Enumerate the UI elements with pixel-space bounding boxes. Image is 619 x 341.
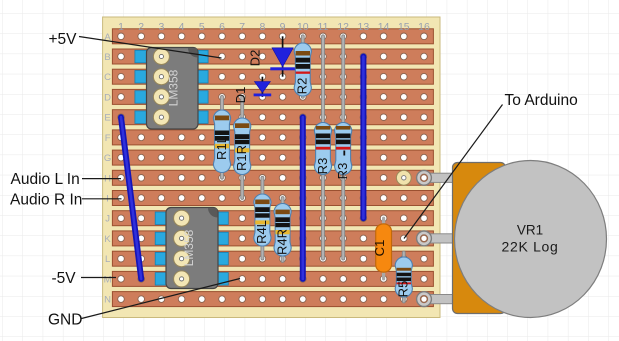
svg-text:12: 12	[337, 21, 349, 33]
stripboard board	[103, 17, 440, 318]
svg-text:R1R: R1R	[234, 145, 249, 171]
svg-text:15: 15	[398, 21, 410, 33]
svg-text:-5V: -5V	[52, 270, 77, 287]
copper strip row G	[112, 150, 433, 165]
svg-text:Audio L In: Audio L In	[11, 171, 80, 188]
diode D1	[254, 77, 272, 97]
svg-text:D1: D1	[233, 87, 248, 104]
svg-text:6: 6	[219, 21, 225, 33]
potentiometer VR1 pad pins	[417, 170, 432, 306]
board holes	[118, 33, 428, 302]
svg-text:8: 8	[259, 21, 265, 33]
svg-text:LM358: LM358	[167, 69, 181, 106]
potentiometer VR1 dial	[455, 161, 607, 318]
resistor R3L	[314, 36, 331, 258]
svg-text:G: G	[104, 153, 111, 164]
svg-text:R5: R5	[396, 281, 411, 298]
node Audio L In leader line	[82, 178, 121, 180]
op-amp U1 pads	[135, 50, 208, 123]
svg-text:VR1: VR1	[517, 223, 543, 238]
copper strip row B	[112, 49, 433, 64]
capacitor C1 leads	[382, 218, 385, 279]
diode D2	[270, 36, 295, 76]
resistor R3R	[335, 36, 352, 258]
svg-text:14: 14	[378, 21, 390, 33]
potentiometer VR1 body	[453, 163, 506, 314]
potentiometer VR1 pins	[424, 173, 454, 304]
op-amp U2 body	[166, 208, 218, 289]
copper strip row K	[112, 231, 433, 246]
copper strip row C	[112, 69, 433, 84]
svg-text:GND: GND	[48, 312, 82, 329]
svg-text:13: 13	[358, 21, 370, 33]
copper strip row D	[112, 89, 433, 104]
svg-text:B: B	[104, 52, 110, 63]
op-amp U1 body	[147, 48, 199, 130]
svg-text:5: 5	[199, 21, 205, 33]
column numbers 1-16	[118, 21, 430, 33]
svg-text:4: 4	[179, 21, 185, 33]
copper strip row N	[112, 292, 433, 307]
copper strip row H	[112, 170, 433, 185]
ground GND leader line	[82, 279, 241, 319]
op-amp U2 pads	[155, 212, 228, 285]
copper strip row L	[112, 251, 433, 266]
svg-text:D2: D2	[248, 50, 263, 67]
svg-text:+5V: +5V	[49, 31, 78, 48]
resistor R2	[294, 36, 311, 97]
svg-text:K: K	[104, 234, 111, 245]
svg-text:D: D	[104, 92, 111, 103]
resistor R1L	[213, 97, 230, 178]
resistor R4L	[254, 178, 271, 259]
node -5V leader line	[81, 277, 116, 279]
svg-text:R3: R3	[335, 163, 350, 180]
copper strip row E	[112, 110, 433, 125]
svg-text:R1L: R1L	[214, 136, 229, 160]
svg-text:R2: R2	[295, 78, 310, 95]
svg-text:3: 3	[158, 21, 164, 33]
svg-text:R3: R3	[315, 158, 330, 175]
svg-text:2: 2	[138, 21, 144, 33]
svg-text:R4L: R4L	[254, 220, 269, 244]
svg-text:M: M	[104, 274, 112, 285]
copper strip row A	[112, 29, 433, 44]
wire jumper E1-M2	[121, 117, 141, 279]
svg-text:F: F	[105, 133, 111, 144]
op-amp U2 socket pins	[174, 210, 190, 287]
resistor R3R label clipped glyph	[343, 151, 345, 156]
svg-text:11: 11	[318, 21, 329, 33]
node To Arduino leader line	[404, 105, 503, 239]
svg-text:To Arduino: To Arduino	[505, 92, 578, 109]
copper strip row J	[112, 211, 433, 226]
svg-text:1: 1	[118, 21, 124, 33]
svg-text:LM358: LM358	[182, 229, 196, 266]
op-amp U1 socket pins	[153, 49, 169, 126]
wire jumper E10-M10	[300, 117, 306, 279]
svg-text:22K Log: 22K Log	[501, 239, 558, 255]
node +5V leader line	[79, 37, 222, 59]
resistor R5	[395, 253, 412, 302]
svg-text:16: 16	[418, 21, 430, 33]
svg-text:J: J	[105, 214, 110, 225]
svg-text:R4R: R4R	[274, 229, 289, 255]
copper strip row I	[112, 191, 433, 206]
svg-text:N: N	[104, 295, 111, 306]
svg-text:C: C	[104, 72, 111, 83]
capacitor C1 body	[376, 224, 392, 272]
node Audio R In leader line	[82, 198, 122, 200]
svg-text:7: 7	[239, 21, 245, 33]
pad at H15	[396, 170, 411, 185]
svg-text:E: E	[104, 113, 110, 124]
resistor R4R	[274, 198, 291, 261]
svg-text:9: 9	[280, 21, 286, 33]
copper strip row F	[112, 130, 433, 145]
row letters A-N	[104, 32, 112, 306]
wire jumper B13-J13	[360, 57, 366, 219]
svg-text:L: L	[105, 254, 110, 265]
svg-text:Audio R In: Audio R In	[10, 191, 82, 208]
copper strip row M	[112, 271, 433, 286]
resistor R1R	[234, 97, 251, 198]
svg-text:C1: C1	[372, 240, 387, 257]
svg-text:10: 10	[297, 21, 309, 33]
